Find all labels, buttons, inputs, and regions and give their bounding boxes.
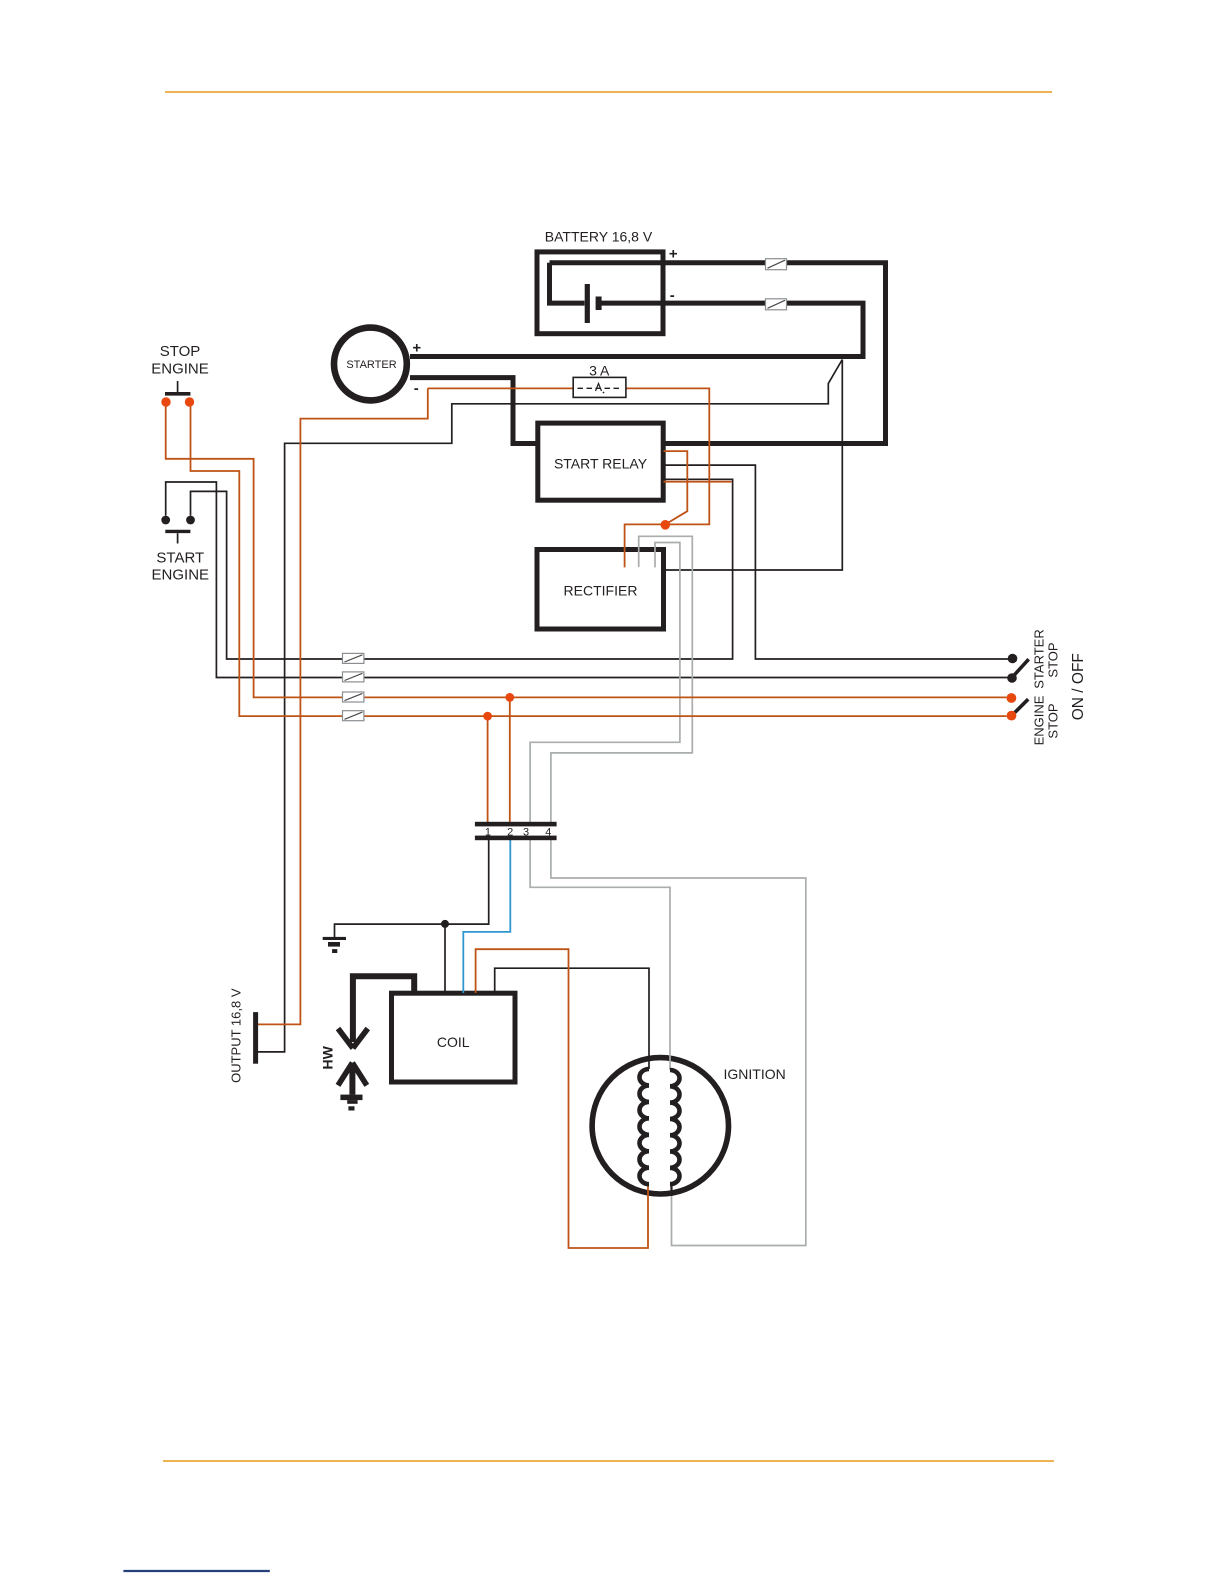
svg-text:HW: HW [319,1045,335,1069]
svg-text:COIL: COIL [437,1034,470,1050]
svg-text:ON / OFF: ON / OFF [1070,653,1087,720]
svg-text:STOP: STOP [160,343,201,360]
svg-text:ENGINE: ENGINE [151,361,209,378]
svg-text:STOP: STOP [1046,642,1061,677]
svg-text:BATTERY 16,8 V: BATTERY 16,8 V [545,229,653,245]
svg-text:2: 2 [507,826,513,838]
svg-text:START: START [156,549,204,566]
svg-text:IGNITION: IGNITION [724,1066,786,1082]
svg-text:1: 1 [485,826,491,838]
svg-text:+: + [412,340,421,357]
svg-text:STARTER: STARTER [346,359,396,371]
svg-text:OUTPUT 16,8 V: OUTPUT 16,8 V [228,988,243,1083]
svg-text:ENGINE: ENGINE [152,567,210,584]
svg-text:3 A: 3 A [589,362,610,378]
svg-text:STOP: STOP [1046,703,1061,738]
svg-text:3: 3 [523,826,529,838]
svg-text:4: 4 [545,826,551,838]
svg-text:+: + [669,245,678,262]
svg-text:RECTIFIER: RECTIFIER [564,582,638,598]
svg-text:START RELAY: START RELAY [554,455,648,471]
svg-text:-: - [670,287,675,304]
svg-text:STARTER: STARTER [1032,629,1047,688]
svg-text:-: - [414,380,419,397]
svg-text:ENGINE: ENGINE [1032,695,1047,745]
